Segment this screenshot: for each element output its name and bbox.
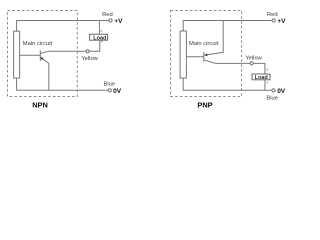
main circuit block element (PNP) xyxy=(180,31,186,78)
output terminal Yellow (PNP) xyxy=(250,62,253,65)
terminal 0V (PNP) xyxy=(272,89,275,92)
svg-text:*: * xyxy=(266,82,268,88)
wire: emitter feed from +V line xyxy=(204,21,223,56)
terminal 0V (NPN) xyxy=(108,89,111,92)
transistor Q2 base bar xyxy=(203,52,205,62)
svg-text:Main circuit: Main circuit xyxy=(189,41,219,47)
svg-text:0V: 0V xyxy=(277,88,286,95)
wire: emitter down to 0V line xyxy=(48,63,50,90)
svg-text:*: * xyxy=(100,30,102,36)
transistor Q1 emitter diagonal xyxy=(40,57,49,63)
svg-text:*: * xyxy=(101,41,103,47)
sensor dashed outline (PNP) xyxy=(171,11,242,97)
terminal +V (PNP) xyxy=(272,19,275,22)
terminal +V (NPN) xyxy=(109,19,112,22)
svg-text:+V: +V xyxy=(114,18,123,25)
sensor dashed outline (NPN) xyxy=(8,11,78,97)
wire: collector output line to load xyxy=(215,63,265,74)
wire: load bottom to output line xyxy=(49,40,100,51)
wire: base from main circuit xyxy=(20,54,41,56)
svg-text:Blue: Blue xyxy=(266,96,278,102)
emitter arrow (NPN) xyxy=(40,57,43,60)
load box (PNP) xyxy=(252,74,270,80)
svg-text:Load: Load xyxy=(255,75,268,81)
wire: main element top to +V line xyxy=(183,21,272,32)
transistor Q2 collector diagonal xyxy=(204,60,216,64)
svg-text:Yellow: Yellow xyxy=(81,56,98,62)
svg-text:Red: Red xyxy=(267,12,278,18)
svg-text:0V: 0V xyxy=(113,88,122,95)
svg-text:PNP: PNP xyxy=(197,100,212,109)
svg-text:+V: +V xyxy=(277,18,286,25)
svg-text:*: * xyxy=(266,68,268,74)
transistor Q1 base bar xyxy=(39,50,41,61)
svg-text:NPN: NPN xyxy=(32,100,48,109)
wire: load bottom to 0V line xyxy=(264,80,266,91)
main circuit block element (NPN) xyxy=(14,31,20,78)
wire: main element bottom to 0V line xyxy=(17,78,109,90)
wire: load stub from +V line xyxy=(98,21,100,35)
wire: main element bottom to 0V line (PNP) xyxy=(183,78,272,90)
svg-text:Blue: Blue xyxy=(103,81,115,87)
wire: base from main circuit (PNP) xyxy=(187,56,204,58)
svg-text:Yellow: Yellow xyxy=(245,55,262,61)
transistor Q1 NPN collector diagonal xyxy=(40,51,48,53)
load box (NPN) xyxy=(90,34,108,40)
svg-text:Red: Red xyxy=(102,12,113,18)
wire: main element top to +V line xyxy=(17,21,109,32)
svg-text:Main circuit: Main circuit xyxy=(23,41,53,47)
output terminal Yellow (NPN) xyxy=(86,50,89,53)
emitter arrow (PNP) xyxy=(204,53,207,56)
